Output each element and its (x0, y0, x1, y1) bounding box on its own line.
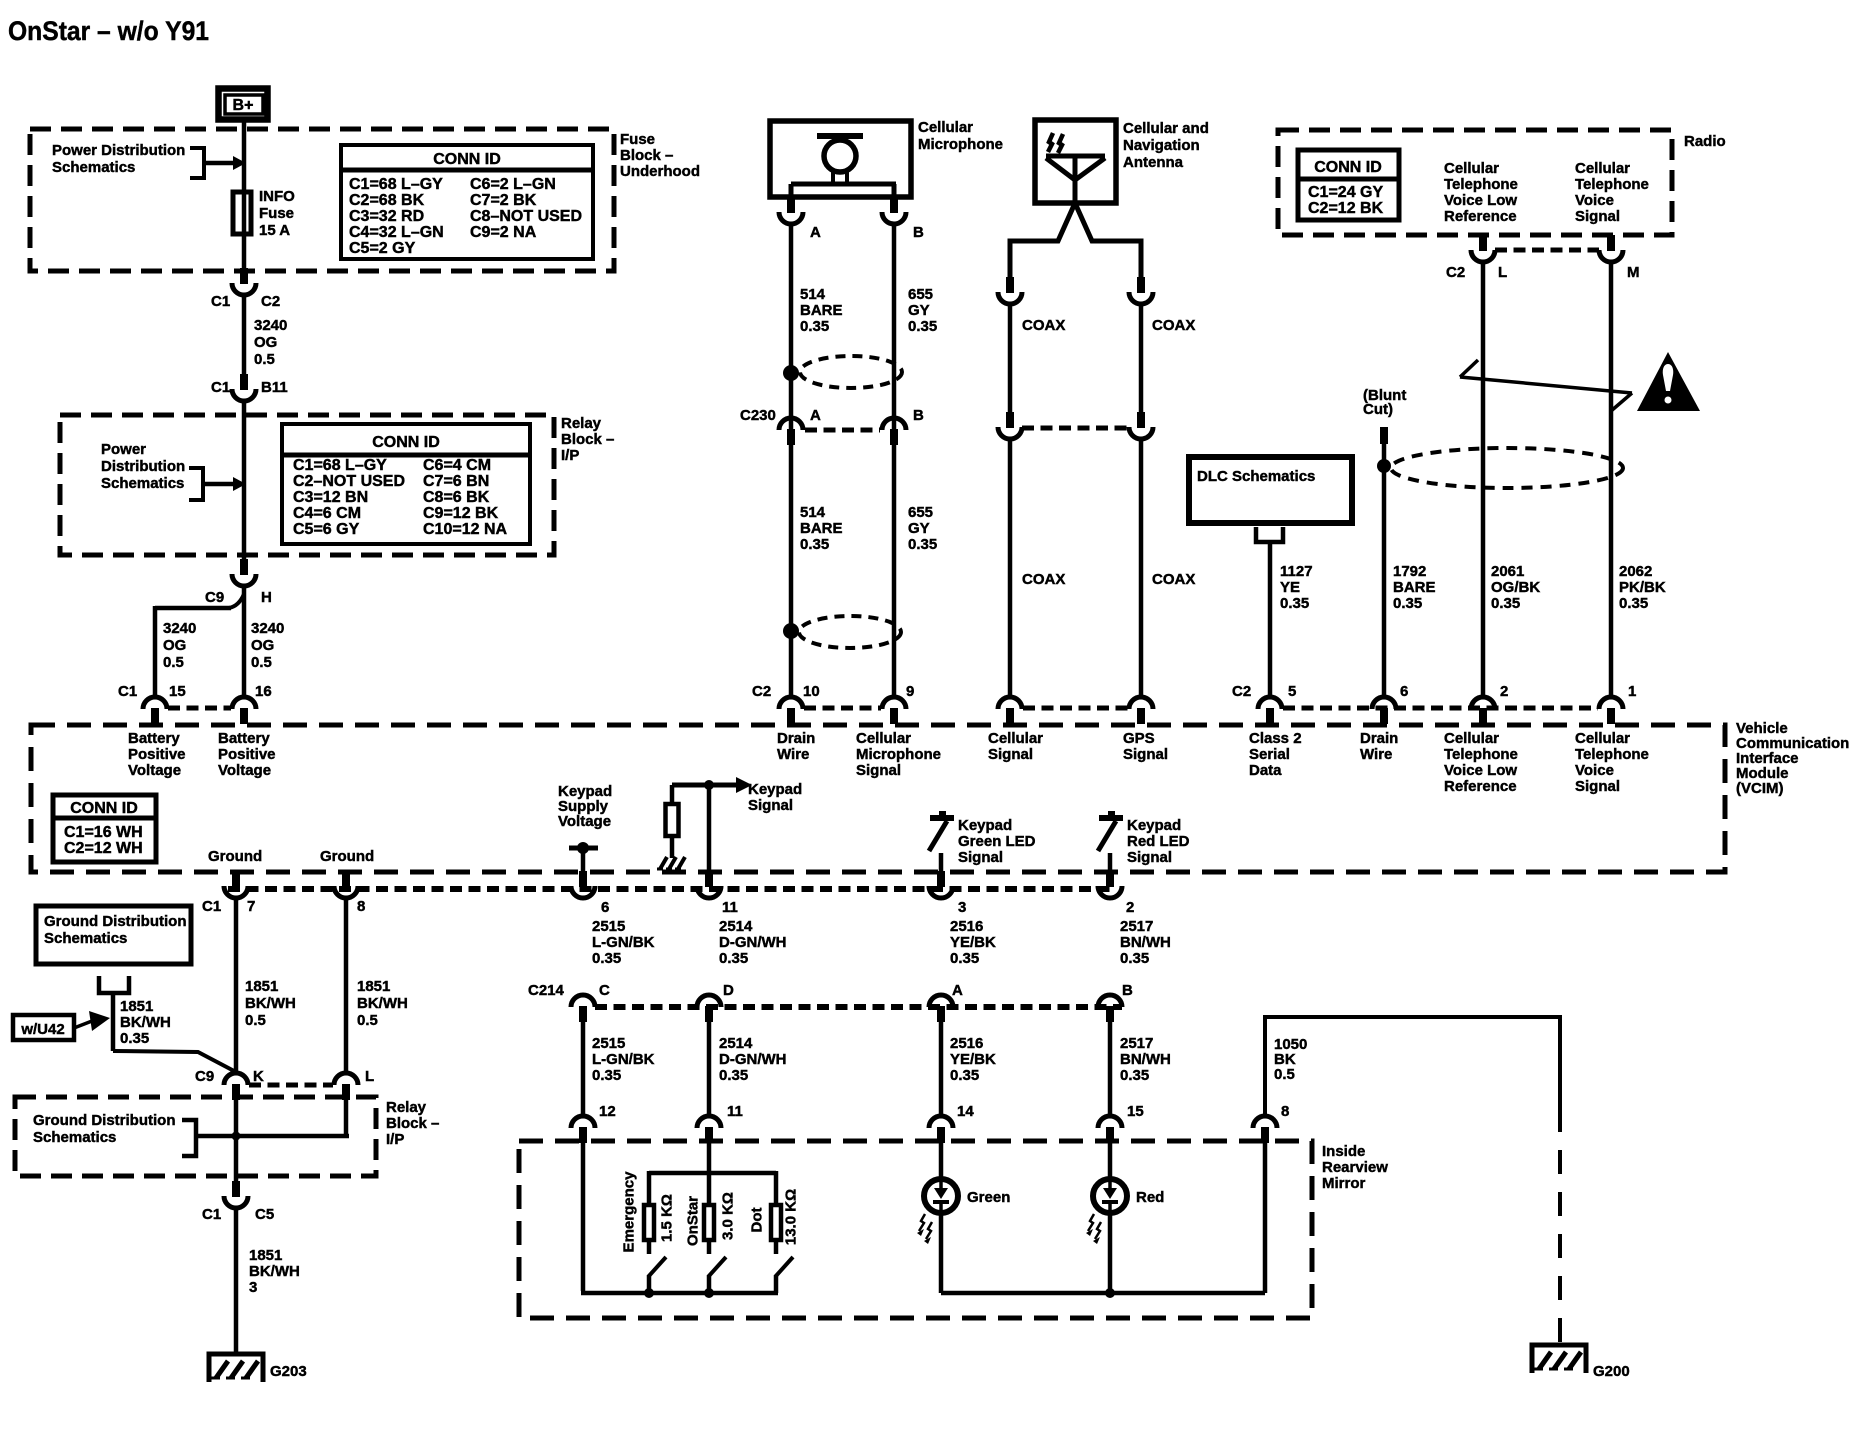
svg-text:8: 8 (1281, 1103, 1289, 1120)
svg-text:Navigation: Navigation (1123, 137, 1200, 154)
svg-text:Block –: Block – (386, 1115, 439, 1132)
svg-text:w/U42: w/U42 (20, 1021, 64, 1038)
svg-text:CONN ID: CONN ID (433, 151, 501, 168)
svg-text:2062: 2062 (1619, 563, 1652, 580)
svg-text:Green: Green (967, 1189, 1010, 1206)
svg-text:2515: 2515 (592, 1035, 625, 1052)
svg-text:A: A (952, 982, 963, 999)
svg-text:C3=32 RD: C3=32 RD (349, 208, 424, 225)
svg-text:Cellular: Cellular (988, 730, 1043, 747)
svg-text:Telephone: Telephone (1575, 176, 1649, 193)
svg-text:BARE: BARE (800, 520, 843, 537)
svg-text:Ground Distribution: Ground Distribution (44, 913, 186, 930)
svg-text:C1=68 L–GY: C1=68 L–GY (293, 457, 387, 474)
svg-text:Relay: Relay (386, 1099, 427, 1116)
svg-text:0.5: 0.5 (1274, 1066, 1295, 1083)
svg-text:B: B (913, 407, 924, 424)
svg-text:14: 14 (957, 1103, 974, 1120)
svg-text:Block –: Block – (561, 431, 614, 448)
svg-text:0.35: 0.35 (800, 536, 829, 553)
svg-text:C: C (599, 982, 610, 999)
svg-text:Red: Red (1136, 1189, 1164, 1206)
svg-text:Emergency: Emergency (621, 1171, 638, 1253)
svg-text:C6=2 L–GN: C6=2 L–GN (470, 176, 556, 193)
svg-text:Telephone: Telephone (1444, 176, 1518, 193)
svg-text:B: B (913, 224, 924, 241)
svg-text:I/P: I/P (386, 1131, 404, 1148)
svg-text:YE/BK: YE/BK (950, 1051, 996, 1068)
svg-text:1851: 1851 (249, 1247, 282, 1264)
svg-text:A: A (810, 224, 821, 241)
svg-text:D-GN/WH: D-GN/WH (719, 934, 787, 951)
svg-text:2517: 2517 (1120, 1035, 1153, 1052)
svg-text:Microphone: Microphone (918, 136, 1003, 153)
svg-text:2516: 2516 (950, 1035, 983, 1052)
svg-text:Cellular: Cellular (856, 730, 911, 747)
svg-text:Cellular: Cellular (918, 119, 973, 136)
svg-text:OG: OG (254, 334, 277, 351)
svg-text:OG/BK: OG/BK (1491, 579, 1540, 596)
svg-text:C1: C1 (202, 1206, 221, 1223)
svg-text:0.5: 0.5 (245, 1012, 266, 1029)
svg-text:L: L (1498, 264, 1507, 281)
svg-text:Distribution: Distribution (101, 458, 185, 475)
svg-text:C2=68 BK: C2=68 BK (349, 192, 425, 209)
svg-text:Schematics: Schematics (52, 159, 135, 176)
svg-text:C5: C5 (255, 1206, 274, 1223)
svg-text:BK/WH: BK/WH (245, 995, 296, 1012)
svg-text:INFO: INFO (259, 188, 295, 205)
svg-text:0.35: 0.35 (592, 950, 621, 967)
svg-text:C5=2 GY: C5=2 GY (349, 240, 416, 257)
svg-text:D-GN/WH: D-GN/WH (719, 1051, 787, 1068)
svg-text:Fuse: Fuse (620, 131, 655, 148)
svg-text:2514: 2514 (719, 918, 753, 935)
svg-text:15: 15 (1127, 1103, 1144, 1120)
svg-text:C1=24 GY: C1=24 GY (1308, 184, 1383, 201)
svg-text:C1: C1 (211, 293, 230, 310)
svg-text:Cellular and: Cellular and (1123, 120, 1209, 137)
svg-text:Block –: Block – (620, 147, 673, 164)
svg-text:514: 514 (800, 286, 826, 303)
svg-text:1851: 1851 (245, 978, 278, 995)
svg-text:1851: 1851 (120, 998, 153, 1015)
svg-text:Keypad: Keypad (1127, 817, 1181, 834)
svg-text:0.35: 0.35 (908, 536, 937, 553)
svg-text:B: B (1122, 982, 1133, 999)
svg-text:C9=12 BK: C9=12 BK (423, 505, 499, 522)
svg-text:2061: 2061 (1491, 563, 1524, 580)
svg-text:C8=6 BK: C8=6 BK (423, 489, 490, 506)
svg-text:Signal: Signal (1127, 849, 1172, 866)
svg-text:PK/BK: PK/BK (1619, 579, 1666, 596)
svg-text:Voice: Voice (1575, 192, 1614, 209)
svg-text:Cellular: Cellular (1444, 730, 1499, 747)
svg-text:Voltage: Voltage (128, 762, 181, 779)
svg-text:OnStar: OnStar (685, 1196, 702, 1246)
svg-text:Cut): Cut) (1363, 401, 1393, 418)
svg-text:BK/WH: BK/WH (357, 995, 408, 1012)
svg-text:Wire: Wire (777, 746, 809, 763)
svg-text:Keypad: Keypad (958, 817, 1012, 834)
svg-text:15 A: 15 A (259, 222, 290, 239)
svg-text:0.5: 0.5 (254, 351, 275, 368)
svg-text:G203: G203 (270, 1363, 307, 1380)
svg-text:0.5: 0.5 (163, 654, 184, 671)
svg-text:BN/WH: BN/WH (1120, 1051, 1171, 1068)
svg-text:Underhood: Underhood (620, 163, 700, 180)
svg-text:Wire: Wire (1360, 746, 1392, 763)
svg-text:Signal: Signal (748, 797, 793, 814)
svg-text:15: 15 (169, 683, 186, 700)
svg-text:B+: B+ (233, 97, 254, 114)
svg-text:C4=32 L–GN: C4=32 L–GN (349, 224, 444, 241)
svg-text:0.35: 0.35 (120, 1030, 149, 1047)
svg-text:514: 514 (800, 504, 826, 521)
svg-text:Class 2: Class 2 (1249, 730, 1302, 747)
svg-text:2517: 2517 (1120, 918, 1153, 935)
svg-text:0.35: 0.35 (950, 950, 979, 967)
svg-text:3: 3 (249, 1279, 257, 1296)
svg-text:Serial: Serial (1249, 746, 1290, 763)
svg-text:0.35: 0.35 (719, 950, 748, 967)
svg-text:Voice Low: Voice Low (1444, 192, 1517, 209)
svg-text:C3=12 BN: C3=12 BN (293, 489, 368, 506)
svg-text:COAX: COAX (1022, 571, 1065, 588)
svg-text:C1: C1 (211, 379, 230, 396)
svg-text:10: 10 (803, 683, 820, 700)
svg-text:C2: C2 (1446, 264, 1465, 281)
svg-text:BK/WH: BK/WH (249, 1263, 300, 1280)
svg-text:Cellular: Cellular (1444, 160, 1499, 177)
svg-text:BN/WH: BN/WH (1120, 934, 1171, 951)
svg-text:CONN ID: CONN ID (70, 800, 138, 817)
svg-text:Keypad: Keypad (748, 781, 802, 798)
svg-text:8: 8 (357, 898, 365, 915)
svg-text:Telephone: Telephone (1444, 746, 1518, 763)
svg-text:655: 655 (908, 286, 933, 303)
svg-text:5: 5 (1288, 683, 1296, 700)
svg-text:C1: C1 (202, 898, 221, 915)
svg-text:Drain: Drain (1360, 730, 1398, 747)
svg-text:C7=2 BK: C7=2 BK (470, 192, 537, 209)
svg-text:M: M (1627, 264, 1640, 281)
svg-text:Battery: Battery (218, 730, 270, 747)
svg-text:Cellular: Cellular (1575, 160, 1630, 177)
svg-text:COAX: COAX (1152, 317, 1195, 334)
svg-text:Signal: Signal (988, 746, 1033, 763)
svg-text:Data: Data (1249, 762, 1282, 779)
svg-text:Schematics: Schematics (44, 930, 127, 947)
svg-text:0.5: 0.5 (357, 1012, 378, 1029)
svg-text:Power: Power (101, 441, 146, 458)
svg-text:Reference: Reference (1444, 778, 1517, 795)
svg-text:C1: C1 (118, 683, 137, 700)
svg-text:C7=6 BN: C7=6 BN (423, 473, 489, 490)
svg-text:Signal: Signal (1575, 778, 1620, 795)
svg-text:COAX: COAX (1022, 317, 1065, 334)
svg-text:2516: 2516 (950, 918, 983, 935)
svg-text:Signal: Signal (856, 762, 901, 779)
svg-text:L: L (365, 1068, 374, 1085)
svg-text:Positive: Positive (128, 746, 186, 763)
svg-text:3240: 3240 (254, 317, 287, 334)
svg-text:Reference: Reference (1444, 208, 1517, 225)
svg-text:OnStar – w/o Y91: OnStar – w/o Y91 (8, 16, 209, 46)
svg-text:Voice: Voice (1575, 762, 1614, 779)
svg-text:Dot: Dot (749, 1208, 766, 1233)
svg-text:1: 1 (1628, 683, 1636, 700)
svg-text:3: 3 (958, 899, 966, 916)
svg-text:C9=2 NA: C9=2 NA (470, 224, 537, 241)
svg-text:11: 11 (722, 899, 738, 916)
svg-text:Green LED: Green LED (958, 833, 1036, 850)
svg-text:Schematics: Schematics (33, 1129, 116, 1146)
svg-text:COAX: COAX (1152, 571, 1195, 588)
svg-text:C2=12 WH: C2=12 WH (64, 840, 143, 857)
svg-text:Ground: Ground (320, 848, 374, 865)
svg-text:L-GN/BK: L-GN/BK (592, 934, 655, 951)
svg-text:C9: C9 (205, 589, 224, 606)
svg-text:3.0 KΩ: 3.0 KΩ (720, 1192, 737, 1240)
svg-text:0.35: 0.35 (1619, 595, 1648, 612)
svg-text:0.35: 0.35 (1491, 595, 1520, 612)
svg-text:C8–NOT USED: C8–NOT USED (470, 208, 582, 225)
svg-text:OG: OG (251, 637, 274, 654)
svg-text:0.5: 0.5 (251, 654, 272, 671)
svg-text:0.35: 0.35 (719, 1067, 748, 1084)
svg-text:Voice Low: Voice Low (1444, 762, 1517, 779)
svg-text:2514: 2514 (719, 1035, 753, 1052)
svg-text:Drain: Drain (777, 730, 815, 747)
svg-text:12: 12 (599, 1103, 616, 1120)
svg-text:3240: 3240 (163, 620, 196, 637)
svg-text:OG: OG (163, 637, 186, 654)
svg-text:DLC Schematics: DLC Schematics (1197, 468, 1315, 485)
svg-text:Relay: Relay (561, 415, 602, 432)
svg-text:1.5 KΩ: 1.5 KΩ (659, 1194, 676, 1242)
svg-text:G200: G200 (1593, 1363, 1630, 1380)
svg-text:L-GN/BK: L-GN/BK (592, 1051, 655, 1068)
svg-text:A: A (810, 407, 821, 424)
svg-text:Telephone: Telephone (1575, 746, 1649, 763)
svg-text:C2: C2 (752, 683, 771, 700)
svg-text:C5=6 GY: C5=6 GY (293, 521, 360, 538)
svg-text:13.0 KΩ: 13.0 KΩ (783, 1189, 800, 1245)
svg-text:0.35: 0.35 (950, 1067, 979, 1084)
svg-text:Rearview: Rearview (1322, 1159, 1388, 1176)
svg-text:2: 2 (1126, 899, 1134, 916)
svg-text:3240: 3240 (251, 620, 284, 637)
svg-text:0.35: 0.35 (1120, 950, 1149, 967)
svg-text:C2–NOT USED: C2–NOT USED (293, 473, 405, 490)
svg-text:Voltage: Voltage (218, 762, 271, 779)
svg-text:C2: C2 (1232, 683, 1251, 700)
svg-text:7: 7 (247, 898, 255, 915)
svg-text:0.35: 0.35 (1393, 595, 1422, 612)
svg-text:2515: 2515 (592, 918, 625, 935)
svg-text:CONN ID: CONN ID (372, 434, 440, 451)
svg-text:D: D (723, 982, 734, 999)
svg-text:Voltage: Voltage (558, 813, 611, 830)
svg-text:2: 2 (1500, 683, 1508, 700)
svg-text:1127: 1127 (1280, 563, 1313, 580)
svg-text:BARE: BARE (1393, 579, 1436, 596)
svg-text:Ground: Ground (208, 848, 262, 865)
svg-text:C4=6 CM: C4=6 CM (293, 505, 361, 522)
svg-text:6: 6 (1400, 683, 1408, 700)
svg-text:Positive: Positive (218, 746, 276, 763)
svg-text:0.35: 0.35 (592, 1067, 621, 1084)
svg-text:B11: B11 (261, 379, 288, 396)
svg-text:C1=16 WH: C1=16 WH (64, 824, 143, 841)
svg-text:1792: 1792 (1393, 563, 1426, 580)
svg-text:Ground Distribution: Ground Distribution (33, 1112, 175, 1129)
svg-text:Mirror: Mirror (1322, 1175, 1366, 1192)
svg-text:Red LED: Red LED (1127, 833, 1190, 850)
svg-text:0.35: 0.35 (908, 318, 937, 335)
svg-text:16: 16 (255, 683, 272, 700)
svg-text:0.35: 0.35 (1120, 1067, 1149, 1084)
svg-text:C9: C9 (195, 1068, 214, 1085)
svg-text:11: 11 (727, 1103, 743, 1120)
svg-text:Fuse: Fuse (259, 205, 294, 222)
svg-text:Signal: Signal (958, 849, 1003, 866)
svg-text:GY: GY (908, 302, 930, 319)
svg-text:(VCIM): (VCIM) (1736, 780, 1784, 797)
svg-text:655: 655 (908, 504, 933, 521)
svg-text:Battery: Battery (128, 730, 180, 747)
svg-text:C2: C2 (261, 293, 280, 310)
svg-text:9: 9 (906, 683, 914, 700)
svg-text:H: H (261, 589, 272, 606)
svg-text:C214: C214 (528, 982, 565, 999)
svg-text:K: K (253, 1068, 264, 1085)
svg-text:6: 6 (601, 899, 609, 916)
svg-text:Schematics: Schematics (101, 475, 184, 492)
svg-text:I/P: I/P (561, 447, 579, 464)
svg-text:Antenna: Antenna (1123, 154, 1184, 171)
svg-text:0.35: 0.35 (800, 318, 829, 335)
svg-text:Radio: Radio (1684, 133, 1726, 150)
svg-text:C2=12 BK: C2=12 BK (1308, 200, 1384, 217)
svg-text:CONN ID: CONN ID (1314, 159, 1382, 176)
svg-text:1851: 1851 (357, 978, 390, 995)
svg-text:Microphone: Microphone (856, 746, 941, 763)
svg-text:Signal: Signal (1123, 746, 1168, 763)
svg-text:YE/BK: YE/BK (950, 934, 996, 951)
svg-text:C230: C230 (740, 407, 776, 424)
svg-text:BARE: BARE (800, 302, 843, 319)
svg-text:Signal: Signal (1575, 208, 1620, 225)
svg-text:YE: YE (1280, 579, 1300, 596)
svg-text:C6=4 CM: C6=4 CM (423, 457, 491, 474)
svg-text:Inside: Inside (1322, 1143, 1365, 1160)
svg-text:0.35: 0.35 (1280, 595, 1309, 612)
svg-text:Power Distribution: Power Distribution (52, 142, 185, 159)
svg-text:Cellular: Cellular (1575, 730, 1630, 747)
svg-text:GPS: GPS (1123, 730, 1155, 747)
svg-text:C1=68 L–GY: C1=68 L–GY (349, 176, 443, 193)
svg-text:C10=12 NA: C10=12 NA (423, 521, 507, 538)
svg-text:GY: GY (908, 520, 930, 537)
svg-text:BK/WH: BK/WH (120, 1014, 171, 1031)
